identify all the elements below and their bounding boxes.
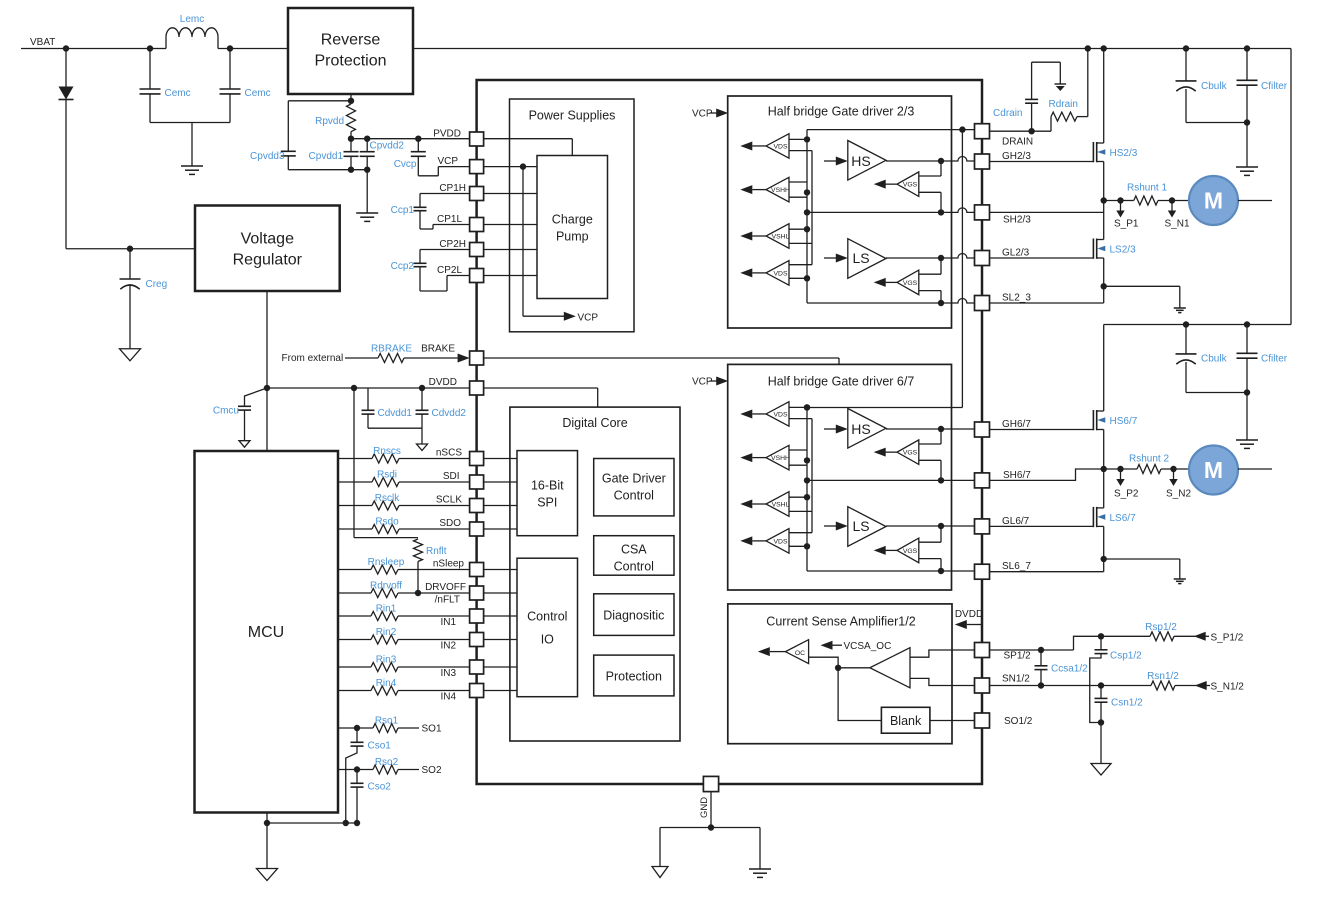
svg-text:S_P1: S_P1 bbox=[1114, 219, 1139, 230]
svg-text:VDS: VDS bbox=[774, 411, 788, 418]
svg-text:Rin4: Rin4 bbox=[376, 678, 397, 689]
svg-text:Current Sense Amplifier1/2: Current Sense Amplifier1/2 bbox=[766, 614, 915, 628]
svg-text:LS6/7: LS6/7 bbox=[1110, 513, 1137, 524]
svg-text:M: M bbox=[1204, 457, 1223, 483]
svg-text:CP1H: CP1H bbox=[439, 183, 466, 194]
svg-text:Pump: Pump bbox=[556, 230, 589, 244]
svg-text:GH6/7: GH6/7 bbox=[1002, 419, 1031, 430]
svg-text:Cdvdd1: Cdvdd1 bbox=[378, 408, 413, 419]
svg-text:SDI: SDI bbox=[443, 471, 460, 482]
svg-text:GL2/3: GL2/3 bbox=[1002, 248, 1030, 259]
svg-text:GND: GND bbox=[699, 797, 710, 818]
svg-text:CP1L: CP1L bbox=[437, 214, 462, 225]
svg-text:LS2/3: LS2/3 bbox=[1110, 245, 1137, 256]
svg-text:RBRAKE: RBRAKE bbox=[371, 344, 412, 355]
svg-text:Control: Control bbox=[527, 610, 567, 624]
svg-text:IN1: IN1 bbox=[440, 617, 456, 628]
svg-text:SH6/7: SH6/7 bbox=[1003, 470, 1031, 481]
svg-text:Cso2: Cso2 bbox=[368, 782, 392, 793]
svg-text:Control: Control bbox=[614, 489, 654, 503]
svg-text:SH2/3: SH2/3 bbox=[1003, 215, 1031, 226]
svg-text:VCP: VCP bbox=[692, 377, 713, 388]
svg-text:SO1: SO1 bbox=[422, 724, 442, 735]
svg-text:Creg: Creg bbox=[146, 279, 168, 290]
svg-text:Reverse: Reverse bbox=[321, 32, 381, 49]
svg-text:DVDD: DVDD bbox=[429, 377, 457, 388]
svg-text:VSHH: VSHH bbox=[771, 187, 790, 194]
svg-text:Csp1/2: Csp1/2 bbox=[1110, 651, 1142, 662]
svg-text:Rin2: Rin2 bbox=[376, 627, 397, 638]
svg-text:Csn1/2: Csn1/2 bbox=[1111, 698, 1143, 709]
svg-text:IN3: IN3 bbox=[440, 668, 456, 679]
svg-text:VGS: VGS bbox=[903, 182, 918, 189]
svg-text:Half bridge Gate driver 2/3: Half bridge Gate driver 2/3 bbox=[768, 105, 915, 119]
svg-text:Rsdi: Rsdi bbox=[377, 470, 397, 481]
svg-text:VSHL: VSHL bbox=[772, 233, 790, 240]
svg-text:Rdrvoff: Rdrvoff bbox=[370, 581, 402, 592]
svg-text:Rsp1/2: Rsp1/2 bbox=[1145, 622, 1177, 633]
svg-text:Rso1: Rso1 bbox=[375, 716, 399, 727]
svg-text:Rshunt 1: Rshunt 1 bbox=[1127, 183, 1167, 194]
svg-text:Rdrain: Rdrain bbox=[1049, 99, 1078, 110]
svg-text:HS6/7: HS6/7 bbox=[1110, 416, 1138, 427]
svg-text:IN2: IN2 bbox=[440, 641, 456, 652]
svg-text:GL6/7: GL6/7 bbox=[1002, 516, 1030, 527]
svg-text:Rpvdd: Rpvdd bbox=[315, 116, 344, 127]
svg-text:Control: Control bbox=[614, 560, 654, 574]
svg-text:PVDD: PVDD bbox=[433, 129, 461, 140]
svg-text:Cemc: Cemc bbox=[165, 88, 191, 99]
svg-text:VGS: VGS bbox=[903, 450, 918, 457]
svg-text:IO: IO bbox=[541, 633, 554, 647]
svg-text:Lemc: Lemc bbox=[180, 14, 204, 25]
svg-text:SL2_3: SL2_3 bbox=[1002, 293, 1031, 304]
svg-text:S_N1: S_N1 bbox=[1165, 219, 1190, 230]
svg-text:GH2/3: GH2/3 bbox=[1002, 151, 1031, 162]
svg-text:S_N1/2: S_N1/2 bbox=[1211, 682, 1245, 693]
svg-text:DRAIN: DRAIN bbox=[1002, 137, 1033, 148]
svg-text:Cfilter: Cfilter bbox=[1261, 81, 1288, 92]
svg-text:CSA: CSA bbox=[621, 543, 647, 557]
svg-text:DRVOFF: DRVOFF bbox=[425, 582, 466, 593]
svg-text:16-Bit: 16-Bit bbox=[531, 479, 564, 493]
svg-text:Protection: Protection bbox=[606, 670, 662, 684]
svg-text:Voltage: Voltage bbox=[241, 231, 294, 248]
svg-text:CP2L: CP2L bbox=[437, 265, 462, 276]
svg-text:M: M bbox=[1204, 188, 1223, 214]
svg-text:Rsdo: Rsdo bbox=[375, 517, 399, 528]
svg-text:VDS: VDS bbox=[774, 538, 788, 545]
svg-text:SCLK: SCLK bbox=[436, 495, 462, 506]
svg-text:VGS: VGS bbox=[903, 548, 918, 555]
svg-text:Gate Driver: Gate Driver bbox=[602, 472, 666, 486]
svg-text:Ccp1: Ccp1 bbox=[391, 205, 415, 216]
svg-text:VCSA_OC: VCSA_OC bbox=[844, 641, 892, 652]
svg-text:SN1/2: SN1/2 bbox=[1002, 674, 1030, 685]
svg-text:Rshunt 2: Rshunt 2 bbox=[1129, 454, 1169, 465]
svg-text:Cmcu: Cmcu bbox=[213, 406, 239, 417]
svg-text:VCP: VCP bbox=[578, 313, 599, 324]
svg-text:VCP: VCP bbox=[692, 109, 713, 120]
svg-text:VDS: VDS bbox=[774, 270, 788, 277]
svg-text:IN4: IN4 bbox=[440, 692, 456, 703]
svg-text:SL6_7: SL6_7 bbox=[1002, 561, 1031, 572]
svg-text:SPI: SPI bbox=[537, 496, 557, 510]
svg-text:Charge: Charge bbox=[552, 213, 593, 227]
svg-text:SP1/2: SP1/2 bbox=[1004, 651, 1032, 662]
svg-text:Rnsleep: Rnsleep bbox=[368, 557, 405, 568]
svg-text:From external: From external bbox=[282, 353, 344, 364]
svg-text:Cdrain: Cdrain bbox=[993, 108, 1022, 119]
svg-text:Cvcp: Cvcp bbox=[394, 159, 417, 170]
svg-text:Ccsa1/2: Ccsa1/2 bbox=[1051, 664, 1088, 675]
svg-text:VBAT: VBAT bbox=[30, 37, 55, 48]
svg-text:Protection: Protection bbox=[314, 53, 386, 70]
svg-text:Rsn1/2: Rsn1/2 bbox=[1147, 671, 1179, 682]
svg-text:Ccp2: Ccp2 bbox=[391, 261, 415, 272]
svg-text:HS: HS bbox=[851, 153, 870, 169]
svg-text:nSCS: nSCS bbox=[436, 448, 462, 459]
svg-text:Rin3: Rin3 bbox=[376, 655, 397, 666]
svg-text:Rsclk: Rsclk bbox=[375, 493, 400, 504]
svg-text:VCP: VCP bbox=[437, 156, 458, 167]
svg-text:Cbulk: Cbulk bbox=[1201, 354, 1228, 365]
svg-text:Diagnositic: Diagnositic bbox=[603, 609, 664, 623]
svg-text:Cbulk: Cbulk bbox=[1201, 81, 1228, 92]
svg-text:Rnflt: Rnflt bbox=[426, 546, 447, 557]
svg-text:BRAKE: BRAKE bbox=[421, 344, 455, 355]
svg-text:VSHH: VSHH bbox=[771, 455, 790, 462]
svg-text:HS2/3: HS2/3 bbox=[1110, 148, 1138, 159]
svg-text:SDO: SDO bbox=[439, 518, 461, 529]
svg-text:S_P2: S_P2 bbox=[1114, 489, 1139, 500]
svg-text:Regulator: Regulator bbox=[233, 252, 303, 269]
svg-text:S_P1/2: S_P1/2 bbox=[1211, 633, 1244, 644]
svg-text:Power Supplies: Power Supplies bbox=[529, 109, 616, 123]
svg-text:Cemc: Cemc bbox=[245, 88, 271, 99]
svg-text:Digital Core: Digital Core bbox=[562, 416, 627, 430]
svg-text:Cdvdd2: Cdvdd2 bbox=[432, 408, 467, 419]
svg-text:Blank: Blank bbox=[890, 714, 922, 728]
svg-text:SO2: SO2 bbox=[422, 765, 442, 776]
svg-text:Cpvdd3: Cpvdd3 bbox=[250, 151, 285, 162]
svg-text:Rso2: Rso2 bbox=[375, 757, 399, 768]
svg-text:SO1/2: SO1/2 bbox=[1004, 716, 1033, 727]
svg-text:DVDD: DVDD bbox=[955, 609, 983, 620]
svg-text:MCU: MCU bbox=[248, 624, 284, 641]
svg-text:nSleep: nSleep bbox=[433, 559, 465, 570]
svg-text:VGS: VGS bbox=[903, 280, 918, 287]
svg-text:OC: OC bbox=[795, 650, 805, 657]
svg-text:/nFLT: /nFLT bbox=[435, 595, 460, 606]
svg-text:CP2H: CP2H bbox=[439, 239, 466, 250]
svg-text:VSHL: VSHL bbox=[772, 501, 790, 508]
svg-text:Half bridge Gate driver 6/7: Half bridge Gate driver 6/7 bbox=[768, 375, 915, 389]
svg-text:Rin1: Rin1 bbox=[376, 604, 397, 615]
svg-text:Cfilter: Cfilter bbox=[1261, 354, 1288, 365]
svg-text:Rnscs: Rnscs bbox=[373, 446, 401, 457]
svg-text:Cpvdd2: Cpvdd2 bbox=[370, 141, 405, 152]
svg-text:S_N2: S_N2 bbox=[1166, 489, 1191, 500]
svg-text:Cpvdd1: Cpvdd1 bbox=[309, 151, 344, 162]
svg-text:HS: HS bbox=[851, 421, 870, 437]
svg-text:Cso1: Cso1 bbox=[368, 741, 392, 752]
svg-text:LS: LS bbox=[852, 250, 869, 266]
svg-text:LS: LS bbox=[852, 518, 869, 534]
svg-text:VDS: VDS bbox=[774, 143, 788, 150]
